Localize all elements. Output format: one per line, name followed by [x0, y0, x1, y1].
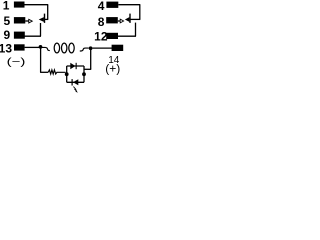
terminal pin 4 — [106, 2, 118, 8]
svg-text:9: 9 — [4, 28, 11, 42]
diode box left vertical — [66, 66, 68, 82]
node A junction dot — [39, 45, 43, 49]
coil L1 loop 2 — [61, 43, 66, 53]
terminal pin 13 — [14, 44, 25, 50]
svg-text:12: 12 — [94, 30, 108, 44]
node D junction dot — [82, 72, 86, 76]
wire node B down — [90, 50, 92, 69]
terminal pin 14 — [112, 45, 124, 51]
diode D1 cathode bar — [76, 63, 77, 69]
terminal pin 5 — [14, 17, 25, 23]
wire pin13 to node A — [25, 46, 39, 48]
wire right contact vertical — [139, 5, 141, 20]
svg-text:4: 4 — [98, 0, 105, 13]
wire pin9 horizontal — [25, 35, 42, 37]
LED D2 anode bar — [72, 79, 73, 85]
terminal pin 8 — [106, 17, 118, 23]
LED emission arrow 2 — [75, 89, 77, 91]
coil entry hook — [42, 47, 50, 50]
terminal pin 9 — [14, 32, 25, 39]
wire to resistor — [40, 71, 48, 73]
node C junction dot — [65, 72, 69, 76]
svg-text:(+): (+) — [105, 61, 120, 75]
coil exit hook — [80, 48, 89, 51]
wire node A down — [40, 49, 42, 73]
svg-text:1: 1 — [3, 0, 10, 13]
wire node B to pin 14 — [93, 47, 113, 49]
contact filled arrow left — [39, 17, 44, 22]
contact blade bar left — [44, 14, 46, 23]
node B junction dot — [89, 46, 93, 50]
diode D1 triangle — [70, 63, 75, 69]
wire right NC hook — [130, 18, 141, 20]
coil L1 loop 3 — [69, 43, 74, 53]
svg-text:13: 13 — [0, 42, 12, 56]
wire jog to diode box — [84, 68, 91, 70]
wire pin12 vertical — [135, 23, 137, 37]
diode box bottom branch — [67, 81, 84, 83]
svg-text:(−): (−) — [7, 55, 26, 67]
COM open arrow — [29, 19, 33, 23]
LED emission arrow 1 — [73, 87, 75, 89]
terminal pin 12 — [106, 33, 118, 39]
wire pin4 to vertical — [118, 4, 140, 6]
wire pin8 stub — [118, 20, 121, 22]
wire pin1 to NC vertical — [25, 4, 49, 6]
COM open arrow right — [120, 19, 123, 23]
diode box right vertical — [83, 66, 85, 82]
resistor R1 zigzag — [48, 70, 65, 74]
wire COM stub — [25, 20, 28, 22]
wire pin9 vertical — [40, 23, 42, 36]
terminal pin 1 — [14, 2, 25, 8]
contact filled arrow right — [125, 17, 129, 22]
diode box top branch — [67, 65, 84, 67]
svg-text:5: 5 — [4, 14, 11, 28]
wire pin12 horizontal — [118, 35, 136, 37]
wire NC vertical — [47, 5, 49, 20]
LED D2 triangle — [73, 79, 78, 85]
svg-text:8: 8 — [98, 15, 105, 29]
contact blade bar right — [129, 14, 131, 23]
coil L1 loop 1 — [54, 43, 59, 53]
wire NC hook — [45, 18, 49, 20]
